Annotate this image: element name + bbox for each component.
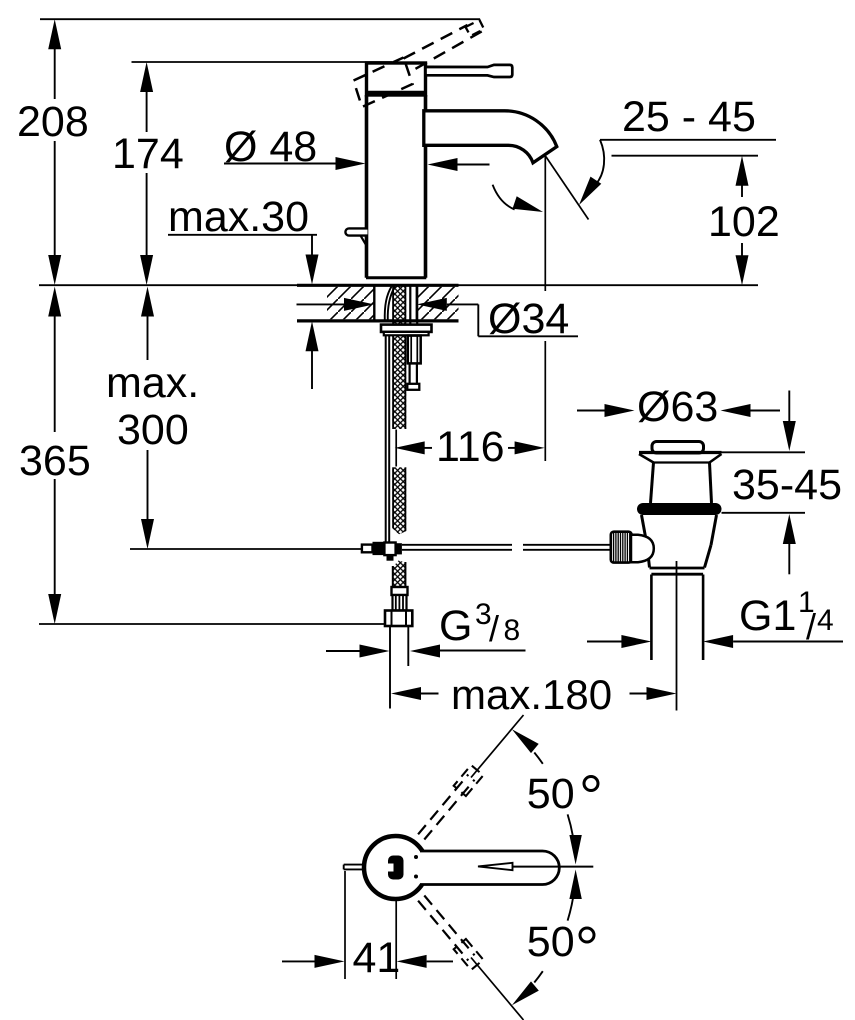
dimension Ø48 label bbox=[224, 123, 490, 171]
hose threaded section bbox=[393, 595, 407, 611]
braided hose lower segment bbox=[392, 561, 406, 588]
svg-text:G1: G1 bbox=[739, 592, 796, 640]
deck hatching left slab bbox=[327, 287, 374, 320]
svg-text:/: / bbox=[806, 606, 816, 647]
svg-text:365: 365 bbox=[19, 437, 91, 485]
pop-up rod curving in hole bbox=[385, 287, 395, 322]
svg-text:116: 116 bbox=[436, 423, 505, 471]
svg-text:102: 102 bbox=[708, 198, 780, 246]
svg-text:208: 208 bbox=[17, 98, 89, 146]
top view: handle centerline bbox=[513, 866, 594, 868]
connector lower stub bbox=[387, 555, 394, 560]
drain pull-rod knob on body bbox=[345, 228, 367, 246]
countertop deck bottom line bbox=[297, 319, 459, 322]
knob hub bbox=[631, 535, 654, 562]
dimension 365 bbox=[19, 287, 91, 625]
dimension 102 bbox=[612, 156, 780, 286]
top view: cartridge black mark bbox=[386, 856, 404, 880]
mounting washer lip bbox=[384, 332, 429, 335]
hose connector center bbox=[384, 543, 395, 556]
hose end tube bbox=[390, 626, 408, 709]
dimension Ø34 bbox=[297, 295, 579, 343]
svg-text:max.180: max.180 bbox=[451, 671, 612, 718]
mounting hole right edge bbox=[416, 286, 418, 320]
mounting stud threaded rod bbox=[407, 363, 419, 389]
mounting washer plate bbox=[381, 325, 432, 332]
curved arrow spout swivel bbox=[493, 185, 543, 212]
svg-text:Ø34: Ø34 bbox=[488, 295, 569, 343]
svg-text:50: 50 bbox=[527, 770, 575, 818]
faucet body left edge bbox=[365, 95, 369, 278]
dimension Ø63 bbox=[577, 383, 780, 431]
svg-text:41: 41 bbox=[353, 934, 401, 982]
svg-text:300: 300 bbox=[117, 406, 189, 454]
top view: 50 deg ray upper bbox=[471, 715, 524, 778]
pop-up waste top flange bbox=[639, 453, 722, 463]
top reference line (208 level) bbox=[40, 18, 480, 20]
mounting stud nut bbox=[408, 336, 421, 364]
deck hatching right slab bbox=[417, 287, 459, 320]
spray angle diagonal line bbox=[546, 157, 589, 220]
pop-up waste cap bbox=[652, 442, 704, 454]
top view: lever handle stadium bbox=[420, 851, 559, 885]
faucet base line bbox=[366, 276, 426, 279]
hose ferrule bbox=[392, 587, 408, 595]
pop-up actuating rod horizontal bbox=[402, 545, 611, 550]
svg-text:/: / bbox=[489, 608, 499, 649]
dimension 50 deg lower arc bbox=[512, 870, 594, 1006]
dimension max.300 bbox=[106, 287, 199, 550]
top view: screw dots bbox=[414, 855, 418, 879]
svg-text:8: 8 bbox=[504, 614, 521, 647]
faucet cartridge head bbox=[367, 63, 426, 95]
knurled adjuster knob bbox=[611, 532, 632, 563]
dimension G1 1/4 bbox=[587, 586, 843, 648]
countertop deck top line bbox=[39, 284, 758, 286]
svg-text:25 - 45: 25 - 45 bbox=[622, 93, 756, 141]
svg-text:35-45: 35-45 bbox=[732, 461, 842, 509]
drain centerline extension bbox=[676, 561, 678, 711]
faucet body right edge bbox=[424, 95, 428, 278]
reference line (174 level) bbox=[132, 61, 393, 63]
mounting hole left edge bbox=[373, 286, 375, 320]
top view: faucet body circle bbox=[364, 836, 427, 899]
dimension 50 deg upper arc bbox=[512, 729, 598, 864]
hose connector left block bbox=[373, 542, 385, 555]
dashed lever (raised position) bbox=[404, 20, 485, 69]
rubber seal washer bbox=[637, 503, 722, 515]
top view: spout stub left bbox=[344, 865, 365, 870]
hose hex nut G3/8 bbox=[385, 611, 412, 627]
svg-text:G: G bbox=[439, 602, 472, 650]
dimension 35-45 bbox=[722, 391, 842, 575]
waste body groove bbox=[650, 568, 705, 574]
top view: lever slot bbox=[478, 863, 513, 870]
dimension 25-45 label with curved leader bbox=[579, 93, 776, 205]
top view: dashed lever rotated down 50 bbox=[418, 896, 483, 970]
365 reference line bbox=[39, 623, 385, 625]
spout outlet extension line bbox=[544, 156, 546, 292]
hose connector right block bbox=[396, 543, 402, 554]
svg-text:Ø63: Ø63 bbox=[637, 383, 718, 431]
white gap for 116 dimension over hose bbox=[389, 429, 408, 467]
dimension 174 bbox=[112, 62, 184, 285]
hose connector end cap bbox=[362, 545, 373, 553]
top view: dashed lever rotated up 50 bbox=[418, 765, 483, 839]
waste tailpipe G1 1/4 bbox=[651, 575, 703, 661]
dimension 41 bbox=[282, 871, 453, 982]
faucet lever handle bbox=[426, 65, 513, 77]
faucet spout bbox=[424, 111, 557, 163]
dimension max.180 bbox=[391, 671, 677, 718]
svg-text:max.: max. bbox=[106, 359, 199, 407]
dimension 208 bbox=[17, 19, 89, 285]
svg-text:4: 4 bbox=[817, 604, 834, 637]
svg-text:174: 174 bbox=[112, 130, 184, 178]
drain pull rod vertical bbox=[386, 335, 390, 542]
top view: 50 deg ray lower bbox=[471, 958, 524, 1020]
svg-text:max.30: max.30 bbox=[168, 193, 309, 241]
waste body below washer bbox=[642, 515, 717, 568]
mounting stud through deck bbox=[410, 287, 417, 325]
dashed head (lever raised position) bbox=[354, 58, 413, 108]
dimension max.30 bbox=[168, 193, 319, 389]
max.300 reference line bbox=[130, 548, 362, 550]
svg-text:50: 50 bbox=[527, 918, 575, 966]
braided supply hose upper bbox=[392, 286, 406, 534]
dimension G3/8 bbox=[326, 598, 526, 658]
dimension 116 bbox=[395, 423, 545, 471]
pop-up waste neck bbox=[651, 463, 712, 504]
